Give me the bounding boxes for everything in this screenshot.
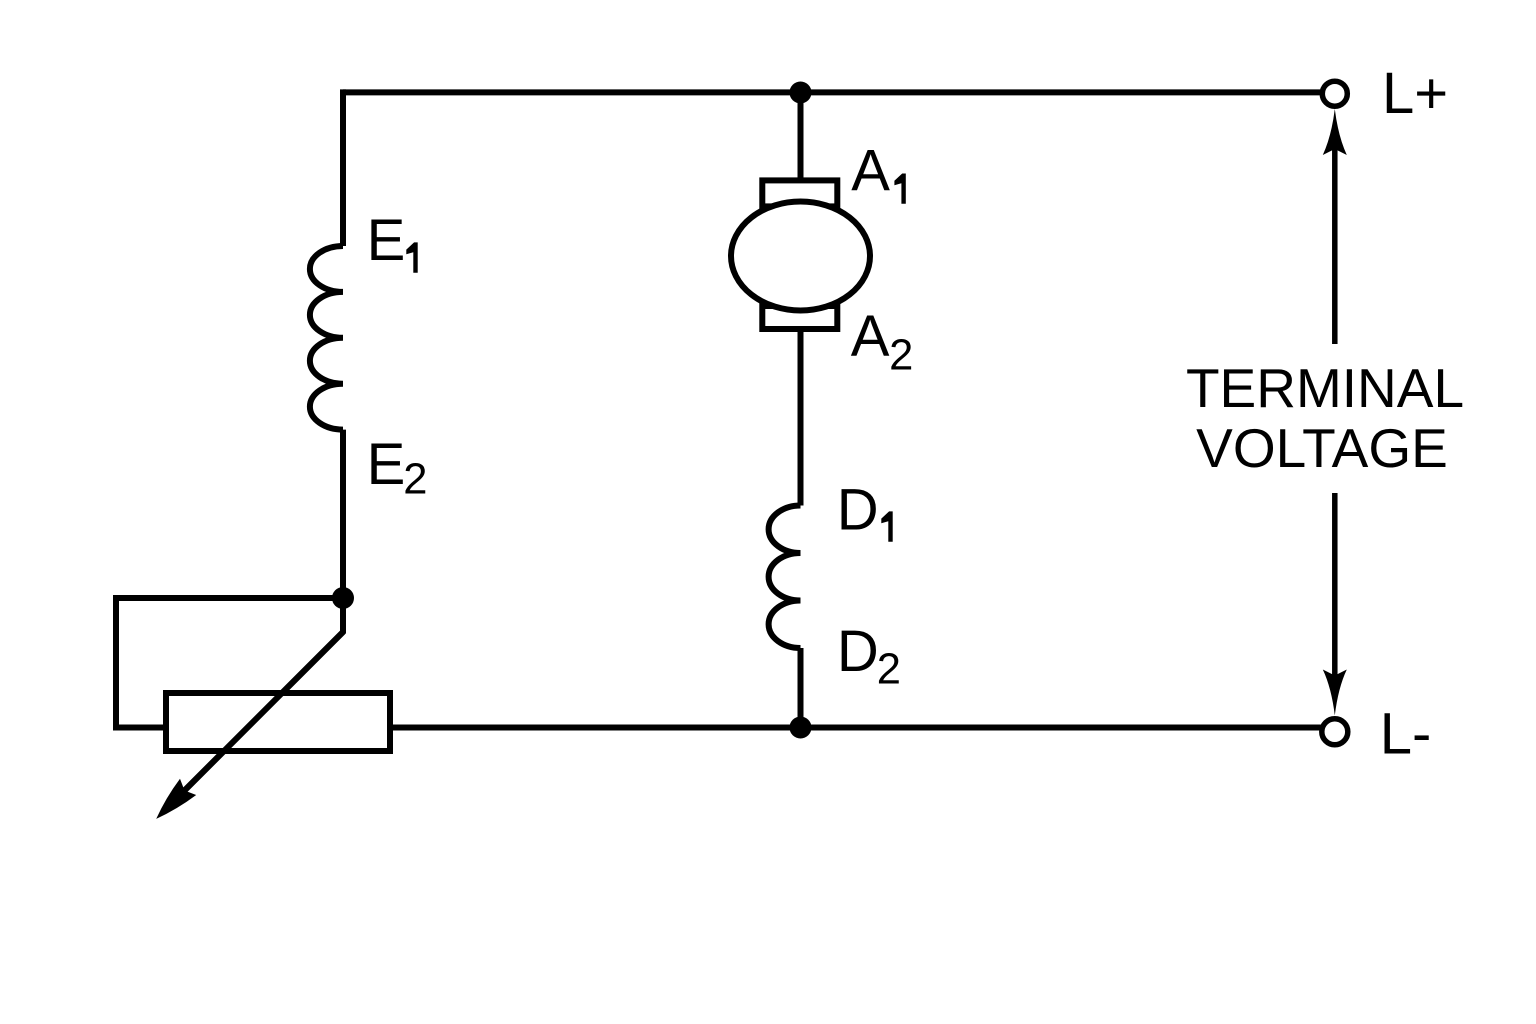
wire armature A2 to D1 [798,329,804,506]
wire E2 to rheostat node [340,430,346,598]
svg-text:2: 2 [403,456,427,504]
node junction E2 to rheostat [332,587,354,609]
motor armature brush bottom rectangle [762,306,837,329]
rheostat variable resistor body [166,693,390,751]
svg-text:L-: L- [1380,702,1432,767]
terminal L+ circle [1322,81,1347,106]
wire armature branch top [798,92,804,181]
terminal voltage arrow top head [1323,109,1347,155]
svg-text:D: D [837,619,879,684]
svg-text:L+: L+ [1382,61,1448,126]
svg-text:2: 2 [877,645,901,693]
terminal voltage arrow bottom head [1323,670,1347,716]
rheostat wiper arrow shaft [172,598,343,803]
svg-text:2: 2 [889,332,913,380]
rheostat wiper arrowhead [156,779,196,819]
svg-text:A: A [851,139,890,204]
motor armature rotor circle [731,202,870,311]
terminal L- circle [1322,719,1348,745]
svg-text:TERMINAL: TERMINAL [1186,357,1464,419]
svg-text:E: E [367,208,406,273]
svg-text:VOLTAGE: VOLTAGE [1196,417,1448,479]
node junction top rail to armature [790,82,812,104]
terminal voltage arrow upper shaft [1332,136,1338,344]
node junction bottom rail to D2 [790,717,812,739]
svg-text:D: D [837,478,879,543]
wire node to rheostat left terminal [116,598,343,728]
inductor D1-D2 series winding [769,506,801,649]
wire top rail L+ node [343,89,1325,95]
motor armature brush top rectangle [762,180,837,206]
wire bottom rail [390,725,1325,731]
wire D2 to bottom rail [798,648,804,728]
wire left branch vertical [340,89,346,246]
rheostat wiper arrow shaft through body [172,632,343,803]
inductor E1-E2 shunt field winding [310,246,343,430]
terminal voltage arrow lower shaft [1332,493,1338,689]
svg-text:A: A [851,304,890,369]
svg-text:E: E [367,432,406,497]
